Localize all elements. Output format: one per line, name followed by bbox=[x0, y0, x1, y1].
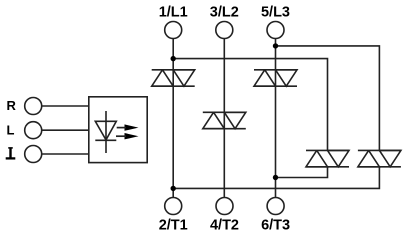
LED D1 inside box bbox=[95, 111, 116, 153]
wire V5 bottom to T1 node bbox=[173, 167, 379, 189]
svg-text:L: L bbox=[7, 122, 15, 137]
wire phase L3 vertical bbox=[275, 39, 277, 198]
svg-text:1/L1: 1/L1 bbox=[159, 5, 188, 21]
terminal circle 6/T3 bbox=[267, 198, 284, 215]
triac V3 (phase L3 top) bbox=[254, 70, 297, 86]
wire perp to input box bbox=[42, 153, 89, 155]
triac V5 (reverse branch right) bbox=[358, 150, 401, 166]
svg-text:5/L3: 5/L3 bbox=[261, 5, 290, 21]
terminal circle L bbox=[25, 122, 42, 139]
terminal circle R bbox=[25, 98, 42, 115]
terminal circle 5/L3 bbox=[267, 22, 284, 39]
svg-text:6/T3: 6/T3 bbox=[261, 218, 290, 234]
input box (opto-coupler block) bbox=[89, 97, 147, 163]
wire phase L1 vertical bbox=[172, 39, 174, 198]
terminal circle 1/L1 bbox=[165, 22, 182, 39]
LED emission arrows bbox=[125, 124, 139, 139]
junction node T1 bbox=[171, 186, 176, 191]
triac V4 (reverse branch left) bbox=[306, 150, 349, 166]
svg-text:R: R bbox=[7, 98, 17, 113]
svg-text:4/T2: 4/T2 bbox=[210, 218, 239, 234]
svg-text:2/T1: 2/T1 bbox=[159, 218, 188, 234]
junction node L1 bbox=[171, 56, 176, 61]
wire L1 node to V4 top bbox=[173, 59, 327, 151]
junction node T3 bbox=[273, 175, 278, 180]
terminal circle 2/T1 bbox=[165, 198, 182, 215]
wire V4 bottom to T3 node bbox=[276, 167, 328, 178]
svg-text:3/L2: 3/L2 bbox=[210, 5, 239, 21]
triac V2 (phase L2 middle) bbox=[203, 112, 246, 128]
wire phase L2 vertical bbox=[223, 39, 225, 198]
terminal circle 4/T2 bbox=[216, 198, 233, 215]
wire L to input box bbox=[42, 129, 89, 131]
triac V1 (phase L1 top) bbox=[152, 70, 195, 86]
terminal circle 3/L2 bbox=[216, 22, 233, 39]
terminal circle perp bbox=[25, 146, 42, 163]
label perp (control common) bbox=[6, 147, 16, 158]
junction node L3 bbox=[273, 43, 278, 48]
wire R to input box bbox=[42, 105, 89, 107]
wire L3 node to V5 top bbox=[276, 46, 380, 150]
